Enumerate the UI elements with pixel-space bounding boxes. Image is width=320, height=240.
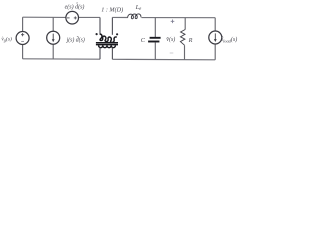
svg-text:C: C — [141, 37, 146, 44]
transformer T1 dot right — [116, 33, 118, 35]
minus sign output — [170, 52, 174, 54]
capacitor C top plate — [150, 37, 161, 39]
wire j-branch upper — [52, 17, 54, 31]
svg-text:v̂(s): v̂(s) — [166, 36, 175, 43]
wire top rail left segment — [23, 16, 100, 18]
wire j-branch lower — [52, 44, 54, 59]
wire load branch upper — [214, 18, 216, 31]
svg-text:j(s) d̂(s): j(s) d̂(s) — [66, 36, 85, 43]
inductor Le — [128, 14, 141, 19]
transformer T1 upper winding — [100, 34, 117, 43]
transformer T1 stub left-top — [99, 17, 101, 34]
plus sign output — [171, 20, 175, 24]
svg-text:Le: Le — [135, 4, 143, 12]
wire bottom rail left segment — [23, 58, 100, 60]
wire R branch lower — [184, 45, 186, 59]
current source J circle — [47, 31, 60, 44]
wire C branch lower — [154, 42, 156, 59]
transformer T1 stub left-bottom — [99, 48, 101, 60]
svg-text:e(s) d̂(s): e(s) d̂(s) — [65, 3, 85, 10]
voltage source Vg circle — [16, 32, 29, 45]
transformer T1 dot left — [96, 33, 98, 35]
wire C branch upper — [154, 18, 156, 38]
transformer T1 stub right-bottom — [111, 48, 113, 60]
transformer T1 stub right-top — [111, 17, 113, 34]
svg-text:1 : M(D): 1 : M(D) — [101, 6, 123, 13]
voltage source E inline circle — [66, 11, 79, 24]
transformer T1 lower winding — [99, 45, 116, 47]
wire input branch lower — [22, 45, 24, 59]
current source Iload circle — [209, 31, 222, 44]
svg-text:îload(s): îload(s) — [221, 36, 237, 43]
wire top rail right segment — [112, 16, 215, 18]
svg-text:R: R — [188, 37, 193, 44]
capacitor C bottom plate — [148, 41, 159, 43]
svg-text:v̂g(s): v̂g(s) — [1, 35, 12, 42]
wire input branch upper — [22, 17, 24, 31]
transformer T1 core lines — [96, 43, 118, 45]
wire load branch lower — [214, 44, 216, 60]
resistor R zigzag — [180, 30, 185, 46]
wire bottom rail right segment — [112, 58, 215, 61]
wire R branch upper — [184, 18, 186, 30]
